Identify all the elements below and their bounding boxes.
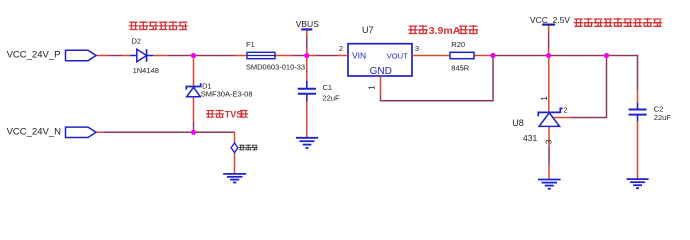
fuse F1 xyxy=(247,52,275,58)
wire VCC_24V_N port to node D xyxy=(96,131,194,133)
svg-text:VCC_2.5V: VCC_2.5V xyxy=(530,15,570,25)
svg-text:3: 3 xyxy=(415,44,419,53)
svg-text:TVS: TVS xyxy=(225,109,243,119)
port VCC_24V_N xyxy=(7,127,96,138)
ground below net-tie xyxy=(223,174,246,183)
svg-text:3: 3 xyxy=(544,139,553,144)
wire node A down to D1 xyxy=(193,56,195,87)
svg-text:VOUT: VOUT xyxy=(387,52,408,61)
wire VBUS power stub xyxy=(306,30,308,56)
wire D2 to node A xyxy=(154,55,194,57)
annotation: supply for MCU and op-amp (CJK) xyxy=(574,18,662,27)
svg-text:1: 1 xyxy=(368,85,377,90)
wire F1 to node VBUS xyxy=(275,55,307,57)
U7 pin 2 (VIN) xyxy=(337,44,348,55)
annotation: constant current 3.9mA (CJK + latin) xyxy=(408,25,478,37)
svg-text:845R: 845R xyxy=(451,63,470,72)
node VCC_2.5V junction xyxy=(546,53,551,58)
wire VCC_2.5V power stub xyxy=(548,25,550,56)
ground below C1 xyxy=(296,138,318,148)
wire node A to fuse F1 xyxy=(194,55,248,57)
svg-text:2: 2 xyxy=(563,105,567,114)
node C junction xyxy=(604,53,609,58)
wire node VBUS to U7 VIN pin 2 xyxy=(307,55,337,57)
svg-text:22uF: 22uF xyxy=(654,113,672,122)
svg-text:SMD0603-010-33: SMD0603-010-33 xyxy=(246,63,305,72)
capacitor C1 xyxy=(298,81,316,101)
svg-text:3.9mA: 3.9mA xyxy=(429,25,461,37)
svg-text:VBUS: VBUS xyxy=(296,19,319,29)
wire VCC_24V_P port to D2 xyxy=(96,55,130,57)
wire U7 VOUT pin 3 to R20 xyxy=(422,55,450,57)
power port VBUS xyxy=(296,19,319,29)
wire node B to node VCC_2.5V xyxy=(493,55,549,57)
U7 pin 1 (GND) xyxy=(368,76,381,90)
wire net-tie to ground xyxy=(234,152,236,173)
wire R20 to node B xyxy=(474,55,493,57)
svg-text:VIN: VIN xyxy=(352,51,366,61)
annotation: protection TVS (CJK + TVS) xyxy=(206,109,248,119)
svg-text:D2: D2 xyxy=(132,36,142,45)
svg-text:F1: F1 xyxy=(246,40,255,49)
wire U8 ref pin 2 to node C xyxy=(554,56,607,118)
svg-text:22uF: 22uF xyxy=(323,94,341,103)
svg-text:1N4148: 1N4148 xyxy=(133,66,159,75)
node A junction xyxy=(191,53,196,58)
U7 pin 3 (VOUT) xyxy=(412,44,422,55)
svg-text:VCC_24V_P: VCC_24V_P xyxy=(7,50,61,61)
svg-text:GND: GND xyxy=(370,66,392,77)
svg-text:VCC_24V_N: VCC_24V_N xyxy=(7,127,62,138)
wire node D to net-tie corner xyxy=(194,132,235,143)
ground below C2 xyxy=(627,179,649,188)
regulator U7 xyxy=(348,44,412,77)
node VBUS junction xyxy=(304,53,309,58)
svg-text:U7: U7 xyxy=(362,25,374,35)
annotation: anti-reverse diode (CJK) xyxy=(129,21,188,30)
port VCC_24V_P xyxy=(7,50,96,61)
diode D2 xyxy=(130,49,154,62)
wire C2 to ground xyxy=(637,121,639,180)
shunt reference U8 (431) xyxy=(538,108,562,126)
wire D1 to node D on lower rail xyxy=(193,97,195,133)
svg-text:431: 431 xyxy=(523,133,537,143)
resistor R20 xyxy=(450,52,474,58)
TVS diode D1 xyxy=(186,83,200,97)
svg-text:R20: R20 xyxy=(451,40,465,49)
svg-text:C1: C1 xyxy=(323,83,333,92)
label short-connector (CJK) xyxy=(239,145,258,151)
svg-text:2: 2 xyxy=(339,44,343,53)
node B junction xyxy=(490,53,495,58)
wire C1 to ground xyxy=(306,101,308,138)
wire node C to C2 branch corner xyxy=(607,55,638,104)
node D junction (lower rail) xyxy=(191,130,196,135)
wire node VCC_2.5V down to U8 cathode pin 1 xyxy=(548,56,550,113)
capacitor C2 xyxy=(629,103,647,121)
net-tie diamond (short connector) xyxy=(231,143,238,153)
ground below U8 xyxy=(538,180,561,189)
wire U8 anode pin 3 to ground xyxy=(548,126,550,179)
power port VCC_2.5V xyxy=(530,15,570,25)
wire node VBUS down to C1 xyxy=(306,56,308,83)
wire U7 GND pin 1 feedback to node B xyxy=(381,56,494,101)
svg-text:U8: U8 xyxy=(512,118,524,128)
wire node VCC_2.5V to node C xyxy=(549,55,607,57)
svg-text:1: 1 xyxy=(540,96,549,101)
svg-text:SMF30A-E3-08: SMF30A-E3-08 xyxy=(201,90,253,99)
